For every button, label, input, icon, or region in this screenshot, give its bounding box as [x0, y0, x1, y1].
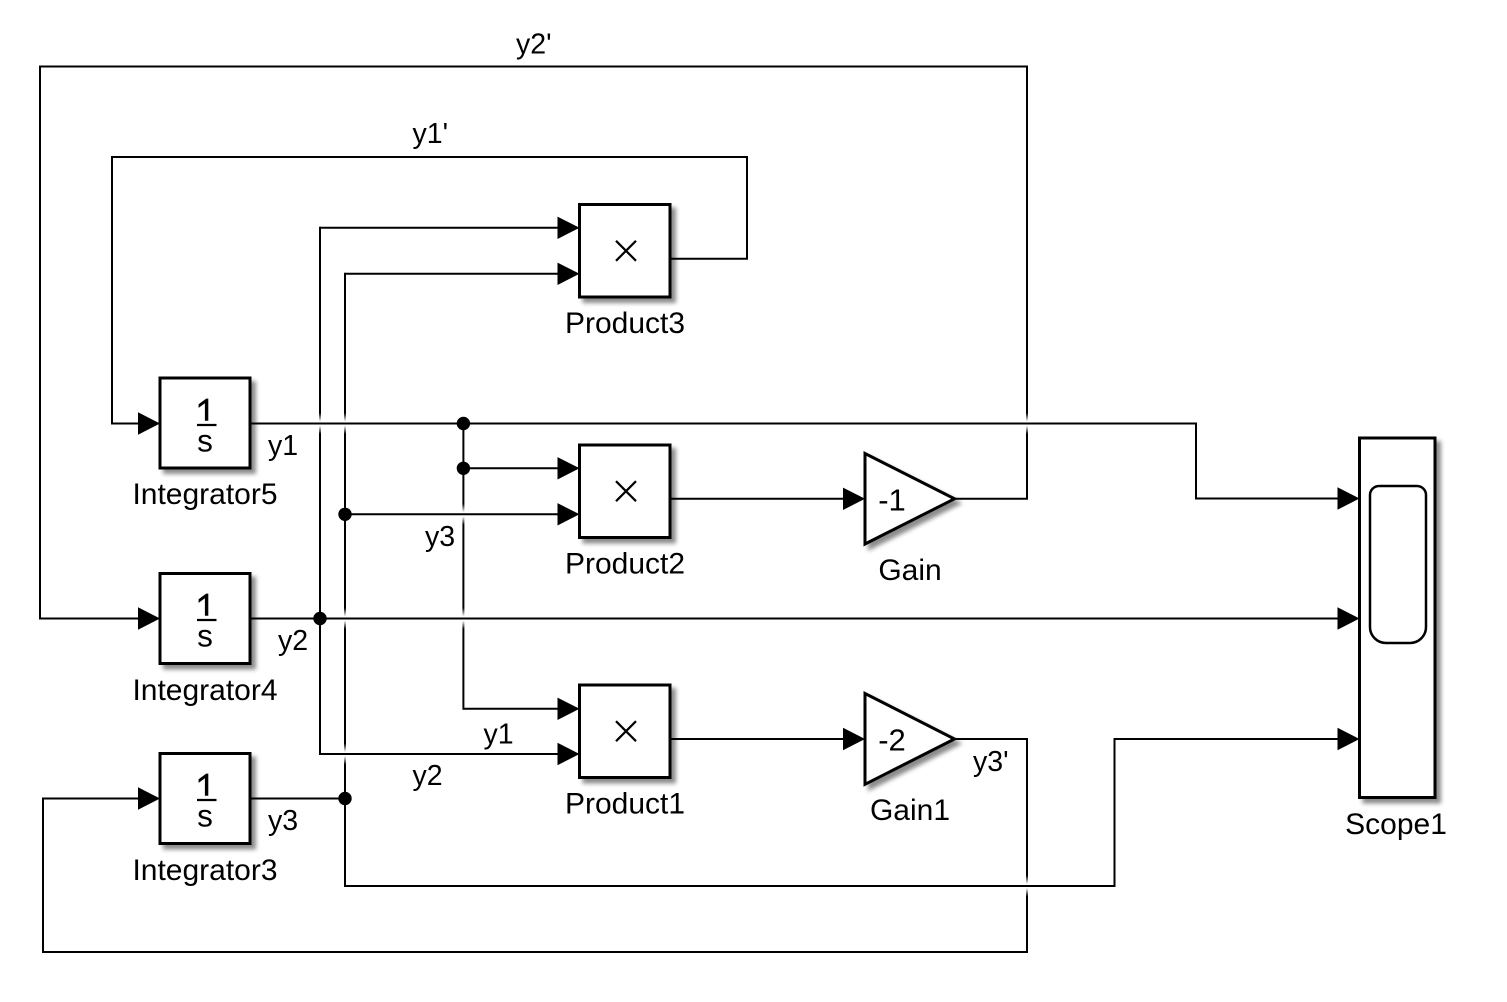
wire y2 into Product1 input 2: [320, 753, 558, 755]
svg-text:s: s: [197, 798, 213, 834]
svg-text:Integrator3: Integrator3: [132, 854, 277, 887]
wire y1 into Product1 input 1: [463, 708, 558, 710]
wire y1 into Product2 input 1: [463, 467, 558, 469]
value label 1/s: [199, 594, 209, 616]
arrowhead into Integrator3: [138, 787, 160, 809]
wire y1 main run: Integrator5 output to Scope1 input 1: [250, 424, 1338, 499]
multiplier Product1: [565, 685, 685, 821]
crossing gap at x320/y1: [318, 413, 323, 434]
wire y3 vertical riser x=345: [344, 274, 346, 886]
wire y1 branch vertical riser x=463: [462, 424, 464, 709]
wire y2 main run: Integrator4 output to Scope1 input 2: [250, 618, 1338, 620]
wire y2 branch vertical riser x=320: [319, 228, 321, 754]
wire y2' feedback loop: Gain output up over the top to Integrator4 input: [40, 67, 1027, 619]
arrowhead into Product2 input 1: [558, 457, 580, 479]
multiplier Product2: [565, 445, 685, 581]
wire y1' feedback loop: Product3 output over the top to Integrator5 input: [112, 157, 747, 424]
svg-text:Gain: Gain: [878, 554, 941, 587]
crossing gap at x1027/y3-bottom: [1025, 876, 1030, 897]
crossing gap at x345/y1: [343, 413, 348, 434]
node junction y1 at Product2 branch: [457, 462, 470, 475]
arrowhead into Scope1 input 2: [1338, 607, 1360, 629]
wire Product1 output to Gain1 input: [670, 738, 844, 740]
wire y3 into Product3 input 2: [345, 273, 558, 275]
svg-text:Product3: Product3: [565, 307, 685, 340]
svg-text:y3: y3: [268, 805, 298, 837]
wire y3' feedback loop: Gain1 output under the bottom to Integrator3 input: [43, 739, 1027, 952]
gain Gain1 (-2): [865, 694, 955, 828]
svg-text:-2: -2: [878, 723, 906, 758]
node junction y3 at Integrator3 output: [338, 792, 351, 805]
wire y3 bottom run to Scope1 input 3: [345, 739, 1338, 886]
arrowhead into Integrator5: [138, 412, 160, 434]
arrowhead into Product3 input 1: [558, 217, 580, 239]
node junction y2: [313, 612, 326, 625]
arrowhead into Product2 input 2: [558, 503, 580, 525]
svg-text:Scope1: Scope1: [1345, 808, 1447, 841]
svg-text:Integrator4: Integrator4: [132, 674, 277, 707]
crossing gap at x345/y2-product1: [343, 744, 348, 765]
node junction y3 at Product2 branch: [338, 508, 351, 521]
integrator Integrator3: [132, 754, 277, 888]
svg-text:-1: -1: [878, 483, 906, 518]
svg-text:y1: y1: [268, 430, 298, 462]
svg-text:y2: y2: [413, 760, 443, 792]
svg-text:y3: y3: [425, 521, 455, 553]
svg-text:Product2: Product2: [565, 548, 685, 581]
wire y3 into Product2 input 2: [345, 513, 558, 515]
svg-text:s: s: [197, 618, 213, 654]
value label 1/s: [199, 774, 209, 796]
crossing gap at x1027/y1: [1025, 413, 1030, 434]
multiply icon x: [616, 481, 636, 501]
svg-text:y2': y2': [516, 29, 552, 61]
arrowhead into Product1 input 1: [558, 698, 580, 720]
crossing gap at x345/y2: [343, 608, 348, 629]
integrator Integrator4: [132, 574, 277, 708]
arrowhead into Gain1: [843, 728, 865, 750]
node junction y1 main: [457, 417, 470, 430]
arrowhead into Integrator4: [138, 607, 160, 629]
wire y2 into Product3 input 1: [320, 227, 558, 229]
svg-text:y3': y3': [973, 746, 1009, 778]
multiplier Product3: [565, 205, 685, 341]
svg-text:Gain1: Gain1: [870, 794, 950, 827]
svg-text:s: s: [197, 423, 213, 459]
svg-text:y2: y2: [278, 625, 308, 657]
arrowhead into Gain: [843, 488, 865, 510]
arrowhead into Scope1 input 1: [1338, 487, 1360, 509]
svg-text:Integrator5: Integrator5: [132, 478, 277, 511]
svg-text:y1: y1: [484, 719, 514, 751]
wire y3: Integrator3 output to riser: [250, 798, 345, 800]
arrowhead into Product3 input 2: [558, 263, 580, 285]
svg-text:Product1: Product1: [565, 788, 685, 821]
wire Product2 output to Gain input: [670, 498, 844, 500]
gain Gain (-1): [865, 454, 955, 588]
crossing gap at x463/y2: [461, 608, 466, 629]
crossing gap at x463/y3-product2: [461, 504, 466, 525]
value label 1/s: [199, 399, 209, 421]
multiply icon x: [616, 721, 636, 741]
scope screen: [1370, 486, 1426, 643]
svg-text:y1': y1': [413, 118, 449, 150]
integrator Integrator5: [132, 378, 277, 511]
scope Scope1: [1345, 438, 1447, 841]
arrowhead into Product1 input 2: [558, 743, 580, 765]
multiply icon x: [616, 241, 636, 261]
arrowhead into Scope1 input 3: [1338, 728, 1360, 750]
